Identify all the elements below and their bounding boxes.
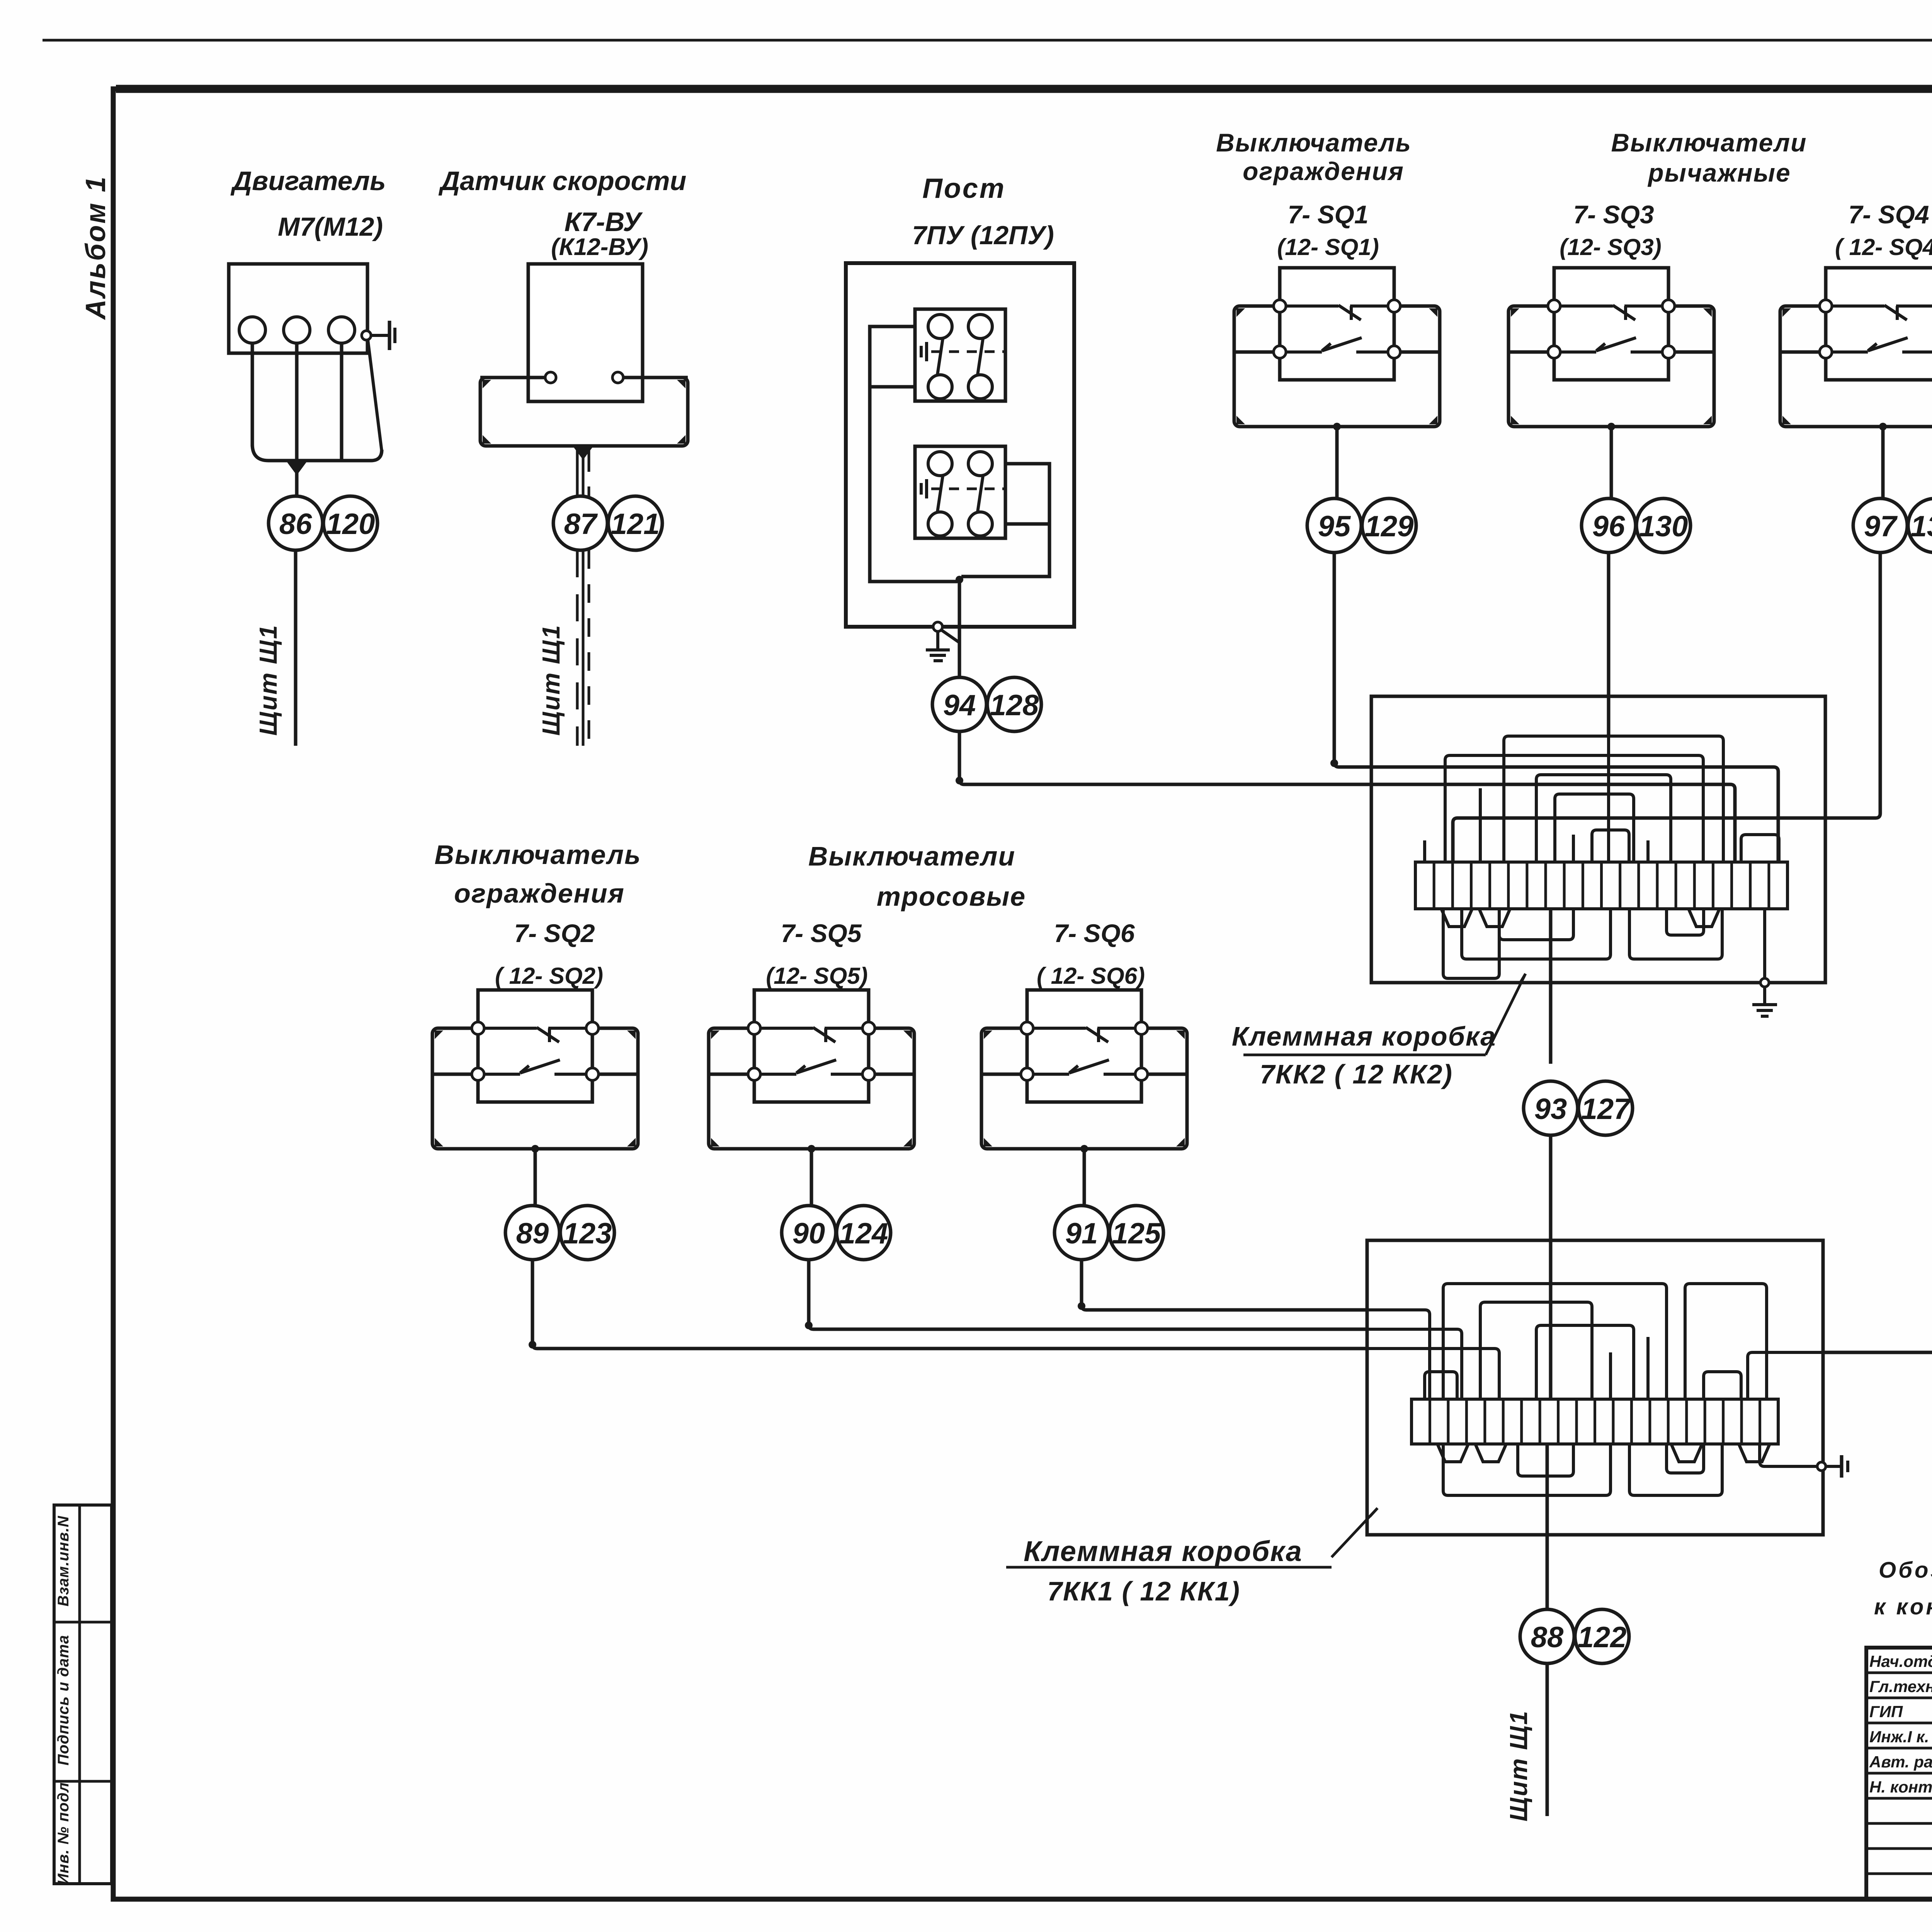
svg-text:7- SQ4: 7- SQ4 xyxy=(1848,200,1929,229)
svg-text:125: 125 xyxy=(1112,1217,1162,1250)
svg-text:93: 93 xyxy=(1534,1093,1567,1126)
svg-text:Авт. раз.: Авт. раз. xyxy=(1869,1753,1932,1771)
svg-text:ГИП: ГИП xyxy=(1869,1702,1903,1721)
svg-text:М7(М12): М7(М12) xyxy=(278,212,383,241)
svg-text:(12- SQ5): (12- SQ5) xyxy=(766,963,867,989)
svg-text:7ПУ (12ПУ): 7ПУ (12ПУ) xyxy=(912,221,1054,250)
svg-text:Двигатель: Двигатель xyxy=(230,166,386,196)
svg-text:7КК1 ( 12 КК1): 7КК1 ( 12 КК1) xyxy=(1047,1576,1240,1606)
svg-text:7КК2 ( 12 КК2): 7КК2 ( 12 КК2) xyxy=(1260,1059,1453,1089)
svg-text:89: 89 xyxy=(516,1217,549,1250)
svg-text:Обозначения в скобках относятс: Обозначения в скобках относятся xyxy=(1879,1558,1932,1583)
svg-text:91: 91 xyxy=(1065,1217,1098,1250)
svg-text:Щит Щ1: Щит Щ1 xyxy=(537,624,565,736)
svg-text:Взам.инв.N: Взам.инв.N xyxy=(55,1515,72,1606)
svg-text:121: 121 xyxy=(611,508,660,541)
svg-text:120: 120 xyxy=(326,508,375,541)
svg-text:(12- SQ1): (12- SQ1) xyxy=(1277,234,1379,260)
svg-text:Щит Щ1: Щит Щ1 xyxy=(254,624,282,736)
svg-text:128: 128 xyxy=(990,689,1039,722)
svg-text:Датчик скорости: Датчик скорости xyxy=(439,166,687,196)
svg-text:к конвейеру ленточному N 2.: к конвейеру ленточному N 2. xyxy=(1874,1594,1932,1619)
svg-text:К7-ВУ: К7-ВУ xyxy=(565,207,643,237)
svg-text:Клеммная коробка: Клеммная коробка xyxy=(1024,1535,1303,1567)
svg-text:7- SQ5: 7- SQ5 xyxy=(781,919,862,947)
svg-text:86: 86 xyxy=(279,508,312,541)
svg-text:94: 94 xyxy=(943,689,976,722)
svg-text:( 12- SQ4): ( 12- SQ4) xyxy=(1835,234,1932,260)
svg-text:127: 127 xyxy=(1581,1093,1632,1126)
svg-text:87: 87 xyxy=(564,508,598,541)
svg-text:Щит Щ1: Щит Щ1 xyxy=(1505,1710,1532,1821)
svg-text:122: 122 xyxy=(1578,1621,1627,1654)
svg-text:Подпись и дата: Подпись и дата xyxy=(55,1635,72,1765)
svg-text:Альбом 1: Альбом 1 xyxy=(80,175,111,320)
svg-text:(К12-ВУ): (К12-ВУ) xyxy=(551,234,648,260)
svg-text:7- SQ2: 7- SQ2 xyxy=(514,919,595,947)
svg-text:Выключатели: Выключатели xyxy=(1611,128,1807,157)
svg-text:7- SQ3: 7- SQ3 xyxy=(1573,200,1654,229)
svg-text:Выключатель: Выключатель xyxy=(434,840,641,870)
svg-text:95: 95 xyxy=(1318,510,1351,543)
svg-text:ограждения: ограждения xyxy=(454,878,625,908)
svg-text:88: 88 xyxy=(1531,1621,1564,1654)
svg-text:Инж.I к.: Инж.I к. xyxy=(1869,1728,1929,1746)
svg-text:90: 90 xyxy=(793,1217,825,1250)
svg-text:Пост: Пост xyxy=(922,173,1006,204)
svg-text:97: 97 xyxy=(1864,510,1898,543)
svg-text:Выключатель: Выключатель xyxy=(1216,128,1412,157)
svg-text:123: 123 xyxy=(563,1217,612,1250)
svg-text:( 12- SQ2): ( 12- SQ2) xyxy=(495,963,603,989)
svg-text:тросовые: тросовые xyxy=(877,881,1026,912)
svg-text:Инв. № подл: Инв. № подл xyxy=(55,1782,72,1885)
svg-text:Выключатели: Выключатели xyxy=(808,841,1015,871)
svg-text:96: 96 xyxy=(1592,510,1625,543)
svg-text:124: 124 xyxy=(839,1217,888,1250)
svg-text:131: 131 xyxy=(1911,510,1932,543)
svg-text:Н. контр: Н. контр xyxy=(1869,1778,1932,1796)
svg-text:Нач.отд: Нач.отд xyxy=(1869,1652,1932,1670)
svg-text:(12- SQ3): (12- SQ3) xyxy=(1560,234,1661,260)
svg-text:Гл.техн.: Гл.техн. xyxy=(1869,1677,1932,1696)
svg-text:Клеммная коробка: Клеммная коробка xyxy=(1232,1021,1496,1051)
svg-text:( 12- SQ6): ( 12- SQ6) xyxy=(1037,963,1145,989)
svg-text:7- SQ6: 7- SQ6 xyxy=(1054,919,1135,947)
svg-text:129: 129 xyxy=(1365,510,1414,543)
svg-text:7- SQ1: 7- SQ1 xyxy=(1287,200,1368,229)
svg-text:130: 130 xyxy=(1639,510,1688,543)
svg-text:рычажные: рычажные xyxy=(1647,158,1791,187)
svg-text:ограждения: ограждения xyxy=(1243,157,1404,185)
